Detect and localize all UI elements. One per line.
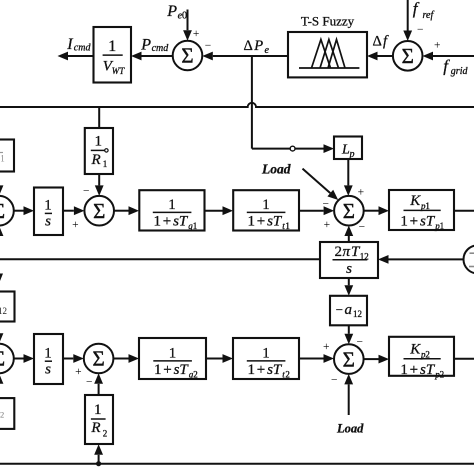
svg-text:12: 12 (353, 309, 362, 319)
svg-text:R: R (91, 152, 101, 168)
svg-text:−: − (86, 377, 93, 389)
svg-text:T-S Fuzzy: T-S Fuzzy (301, 13, 355, 28)
svg-text:−: − (83, 185, 90, 197)
svg-text:Load: Load (336, 422, 364, 436)
svg-text:R: R (90, 420, 100, 436)
svg-text:1: 1 (400, 214, 408, 230)
svg-text:−: − (323, 198, 330, 210)
svg-text:1: 1 (285, 221, 290, 231)
svg-text:e: e (265, 45, 270, 56)
svg-text:−: − (331, 375, 338, 387)
svg-text:2: 2 (193, 370, 198, 380)
svg-text:2: 2 (103, 429, 108, 439)
svg-text:I: I (66, 36, 73, 53)
svg-text:s: s (45, 214, 51, 230)
svg-text:s: s (346, 261, 352, 277)
svg-text:1: 1 (425, 201, 430, 211)
svg-text:1: 1 (103, 159, 108, 169)
svg-text:Σ: Σ (402, 44, 414, 68)
svg-text:+: + (72, 219, 79, 231)
svg-text:Δ: Δ (373, 34, 382, 50)
svg-text:sT: sT (420, 214, 436, 230)
svg-text:1: 1 (44, 198, 52, 214)
svg-text:−: − (205, 40, 212, 52)
svg-text:+: + (75, 366, 82, 378)
svg-text:−: − (417, 24, 424, 36)
svg-text:1: 1 (169, 345, 177, 361)
svg-text:grid: grid (451, 66, 469, 77)
svg-text:+: + (257, 362, 265, 378)
svg-text:+: + (163, 214, 171, 230)
svg-text:a: a (345, 302, 353, 318)
svg-text:+: + (410, 362, 418, 378)
svg-text:WT: WT (112, 66, 125, 76)
svg-text:P: P (253, 38, 263, 54)
svg-text:π: π (343, 244, 351, 260)
svg-text:2: 2 (335, 244, 343, 260)
svg-text:1: 1 (44, 345, 52, 361)
svg-text:+: + (324, 219, 331, 231)
svg-text:1: 1 (94, 402, 102, 418)
svg-text:Σ: Σ (0, 199, 5, 223)
svg-text:Σ: Σ (93, 199, 105, 223)
svg-text:+: + (193, 28, 200, 40)
svg-text:ref: ref (423, 10, 435, 21)
svg-text:sT: sT (173, 214, 189, 230)
svg-text:Load: Load (261, 162, 291, 177)
svg-text:1: 1 (168, 197, 176, 213)
svg-text:Δ: Δ (244, 38, 253, 54)
svg-text:+: + (434, 40, 441, 52)
svg-text:Σ: Σ (343, 347, 355, 371)
svg-text:1: 1 (400, 362, 408, 378)
svg-text:cmd: cmd (74, 42, 92, 53)
svg-text:Σ: Σ (92, 347, 104, 371)
svg-text:+: + (410, 214, 418, 230)
svg-text:1: 1 (440, 221, 445, 231)
svg-text:1: 1 (154, 362, 162, 378)
svg-text:1: 1 (248, 214, 256, 230)
svg-text:2: 2 (0, 409, 4, 419)
svg-text:1: 1 (193, 221, 198, 231)
svg-text:sT: sT (267, 214, 283, 230)
svg-text:K: K (409, 193, 421, 209)
svg-text:1: 1 (95, 134, 103, 150)
svg-text:sT: sT (174, 362, 190, 378)
svg-text:1: 1 (0, 154, 5, 164)
svg-text:+: + (163, 362, 171, 378)
svg-text:2: 2 (440, 369, 445, 379)
svg-text:Σ: Σ (0, 347, 5, 371)
svg-text:−: − (357, 336, 364, 348)
svg-text:0: 0 (182, 10, 187, 21)
svg-text:−: − (359, 222, 366, 234)
svg-text:sT: sT (267, 362, 283, 378)
svg-text:cmd: cmd (152, 43, 170, 54)
svg-text:Σ: Σ (181, 44, 193, 68)
svg-text:1: 1 (154, 214, 162, 230)
svg-text:1: 1 (262, 345, 270, 361)
svg-text:P: P (140, 36, 151, 53)
svg-text:+: + (358, 187, 365, 199)
svg-text:1: 1 (262, 197, 270, 213)
svg-text:p: p (349, 149, 355, 160)
svg-text:2: 2 (285, 370, 290, 380)
svg-text:Σ: Σ (343, 199, 355, 223)
svg-text:1: 1 (108, 38, 116, 55)
svg-text:+: + (257, 214, 265, 230)
svg-text:2: 2 (425, 349, 430, 359)
svg-text:P: P (166, 3, 177, 20)
svg-text:+: + (323, 341, 330, 353)
svg-text:K: K (409, 341, 421, 357)
svg-text:s: s (45, 361, 51, 377)
svg-text:−: − (336, 302, 343, 317)
svg-text:sT: sT (420, 362, 436, 378)
svg-text:12: 12 (0, 306, 7, 316)
svg-text:1: 1 (248, 362, 256, 378)
